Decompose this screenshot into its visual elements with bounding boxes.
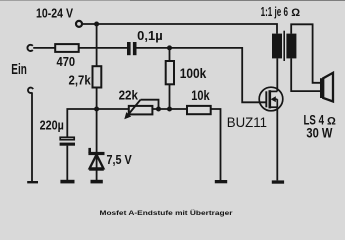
wire secondary top to speaker [291,24,320,83]
node junction 100k bottom / bias row [167,107,172,112]
svg-text:7,5 V: 7,5 V [107,152,132,167]
resistor 2,7k [69,66,102,88]
ground zener [91,180,103,184]
svg-text:Mosfet A-Endstufe mit Übert: Mosfet A-Endstufe mit Übertrager [100,208,234,217]
ground input [27,181,38,183]
wire source to ground [276,107,278,180]
label 1:1 je 6 ohm [261,5,301,19]
wire 2,7k bottom to bias node [96,88,98,110]
node junction wiper / bias row [156,107,161,112]
svg-text:BUZ11: BUZ11 [227,114,267,130]
resistor 10k [187,88,211,114]
svg-text:10k: 10k [191,88,210,103]
wire 100k bottom lead [169,84,171,109]
svg-text:10-24 V: 10-24 V [36,7,74,21]
wire 100k top lead [169,48,171,61]
potentiometer 22k [119,88,153,115]
wire 470 to capacitor 0,1u [79,47,128,49]
svg-text:Ein: Ein [11,62,26,78]
ground 220u [60,180,74,184]
wire drain to transformer [276,58,278,91]
terminal supply 10-24V [76,21,82,27]
svg-text:0,1µ: 0,1µ [137,29,163,43]
terminal input lower [28,88,33,93]
svg-text:2,7k: 2,7k [69,73,92,88]
scan edge artifact top [0,0,130,2]
ground 10k [215,180,227,183]
wiper arrow of 22k [124,100,140,120]
node junction bias row / zener column [94,107,99,112]
capacitor 0,1u [127,29,163,55]
wire top supply rail [82,24,277,34]
wire input lower to ground [31,92,33,181]
speaker LS [320,73,333,102]
node junction top rail / bias column [94,22,99,27]
wire secondary bottom to speaker [291,58,320,91]
svg-text:22k: 22k [119,88,139,103]
wire bias node to zener [96,109,98,180]
resistor 470 [55,44,78,69]
MOSFET Q1 BUZ11 [227,87,283,130]
wire input to R 470 [33,47,55,49]
wire supply column to 2,7k (crosses input row, no junction) [96,24,98,66]
svg-text:220µ: 220µ [40,119,64,133]
resistor 100k [166,61,207,84]
label LS 4 ohm [304,112,337,127]
zener diode 7,5V [88,148,132,169]
svg-text:Ω: Ω [291,7,300,19]
capacitor 220u electrolytic [40,119,75,146]
transformer T1 primary winding [272,34,282,59]
transformer core [283,31,285,61]
wire bias row left (220u corner to 22k) [67,109,129,137]
ground source [272,180,284,183]
wire 22k to 10k [152,108,187,110]
svg-text:470: 470 [57,54,76,69]
wire 10k to ground [211,109,221,180]
wire 220u bottom lead [66,146,68,180]
transformer T1 secondary winding [286,34,296,59]
svg-text:1:1 je 6: 1:1 je 6 [261,5,288,19]
terminal Ein input [27,45,32,51]
node junction gate row / 100k top [167,45,172,50]
svg-text:100k: 100k [180,66,207,81]
svg-text:30 W: 30 W [306,126,332,141]
wire wiper link to bias row [141,100,159,109]
wire capacitor to gate row corner into MOSFET gate [136,48,266,102]
